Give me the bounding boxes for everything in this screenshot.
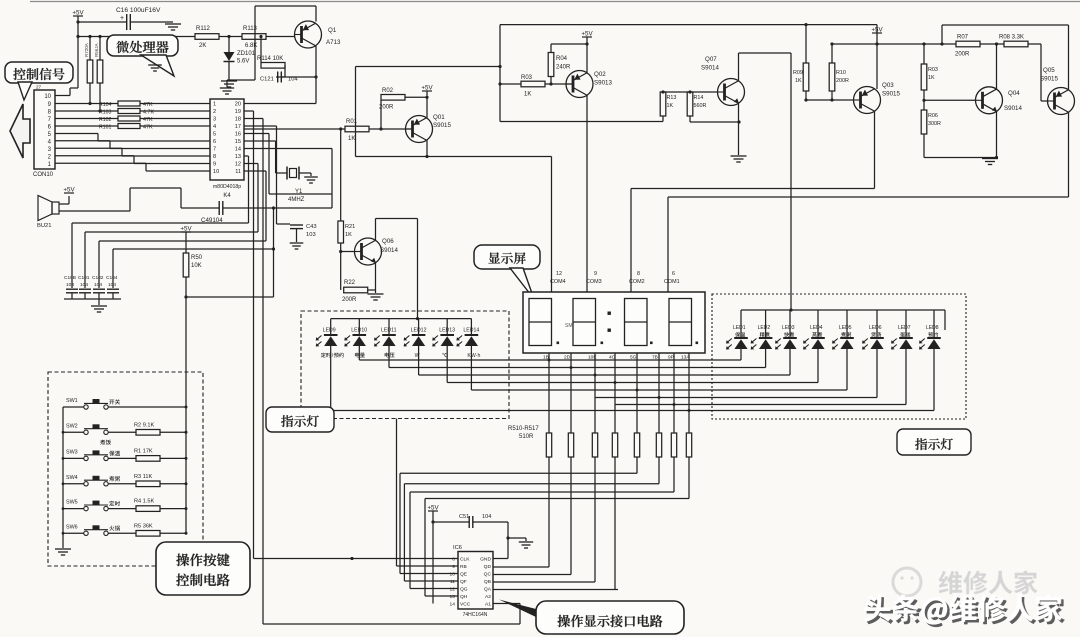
svg-text:240R: 240R — [556, 65, 571, 71]
wire R08 to Q05 base — [1041, 44, 1048, 101]
wire +5V vertical — [76, 16, 79, 88]
wire Q1 emitter to MCU pin20 — [244, 46, 316, 104]
svg-text:R03: R03 — [928, 67, 938, 73]
wire Q04 base rail — [924, 99, 976, 101]
wire Q04 emitter to ground rail — [924, 111, 998, 159]
wire MCU pin19 long vertical to IC6 CLK — [244, 111, 254, 559]
svg-text:SW2: SW2 — [66, 423, 78, 429]
svg-text:8: 8 — [637, 271, 640, 277]
svg-text:2K: 2K — [199, 43, 206, 49]
resistor R114 10K — [257, 35, 285, 68]
svg-text:16: 16 — [235, 132, 241, 138]
svg-text:104: 104 — [288, 77, 298, 83]
switch SW3 — [63, 448, 186, 461]
transistor Q06 S9014 — [355, 238, 399, 265]
wire segment line d — [447, 382, 818, 384]
svg-text:17: 17 — [235, 124, 241, 130]
ground for Q07 — [731, 156, 747, 162]
LED LED7 — [891, 310, 913, 405]
wire bus branch y121 — [500, 121, 663, 123]
resistor R03 1K — [498, 75, 573, 98]
wire left LED anode bus — [331, 317, 472, 320]
ground for C16 — [165, 22, 181, 30]
svg-text:510R: 510R — [519, 434, 534, 440]
power +5V for Q02 — [581, 31, 593, 74]
svg-text:4MHZ: 4MHZ — [288, 197, 305, 203]
LED LED11 — [374, 319, 397, 368]
svg-text:ZD101: ZD101 — [237, 51, 256, 57]
wire R07 rail — [877, 42, 956, 45]
indicator box left dashed — [301, 311, 509, 419]
wire Q07 emitter to ground — [738, 103, 740, 155]
LED LED12 — [404, 319, 427, 375]
svg-text:13: 13 — [235, 154, 241, 160]
wire QG bracket — [410, 457, 674, 589]
transistor Q1 A713 — [295, 21, 342, 48]
LED LED14 — [456, 319, 480, 390]
svg-text:QE: QE — [460, 572, 468, 578]
svg-text:200R: 200R — [379, 105, 394, 111]
svg-text:LED7: LED7 — [898, 325, 911, 331]
svg-text:1K: 1K — [928, 75, 935, 81]
svg-text:BU21: BU21 — [37, 223, 52, 229]
wire base rail y37 — [78, 35, 195, 38]
transistor Q03 S9015 — [854, 82, 901, 114]
svg-text:COM1: COM1 — [664, 279, 680, 285]
svg-text:SW6: SW6 — [66, 524, 78, 530]
svg-text:300R: 300R — [928, 121, 941, 127]
wire MCU pin12 wrap to cap bank — [85, 164, 258, 289]
svg-text:LED6: LED6 — [869, 325, 882, 331]
svg-text:12: 12 — [235, 162, 241, 168]
ground above MCU — [220, 80, 234, 94]
svg-text:R14: R14 — [694, 95, 704, 101]
svg-text:+: + — [120, 15, 124, 22]
svg-text:6: 6 — [672, 271, 675, 277]
ground at microprocessor callout tail — [148, 65, 162, 71]
wire Q1 collector to top rail — [227, 6, 316, 80]
capacitor C49104 — [181, 188, 332, 224]
LED LED2 — [751, 310, 773, 368]
svg-text:K4: K4 — [223, 193, 231, 199]
wire Q02 emitter to COM3 — [586, 95, 588, 292]
wire Q04 collector — [996, 44, 998, 90]
svg-text:QB: QB — [484, 579, 491, 585]
switch SW6 — [63, 523, 186, 536]
wire Q05 collector to top-right bus — [942, 25, 1069, 91]
svg-text:SW4: SW4 — [66, 475, 78, 481]
svg-text:1K: 1K — [667, 103, 674, 109]
svg-text:R06: R06 — [928, 113, 938, 119]
svg-text:Q07: Q07 — [705, 56, 717, 63]
switch SW1 — [63, 398, 186, 409]
LED LED5 — [832, 310, 854, 390]
indicator lamp label left — [266, 407, 334, 432]
wire CLK line from MCU — [254, 557, 459, 560]
wire CON10 pin10 to +5V — [55, 88, 78, 96]
wire segment line g — [615, 404, 906, 406]
svg-text:R07: R07 — [957, 35, 969, 41]
resistor R710B pullup — [97, 37, 103, 113]
svg-text:R08 3.3K: R08 3.3K — [999, 35, 1024, 41]
svg-text:14: 14 — [450, 602, 456, 608]
wire COM4 vertical — [551, 157, 553, 293]
svg-text:560R: 560R — [694, 103, 707, 109]
wire segment line dp — [331, 410, 934, 412]
svg-text:104: 104 — [80, 282, 88, 288]
wire MCU pin17 to C43 tap — [244, 126, 277, 224]
resistor R05 1K — [921, 42, 938, 110]
wire Q07 base rail — [661, 90, 717, 93]
svg-text:C10B: C10B — [64, 275, 76, 281]
svg-text:200R: 200R — [836, 78, 849, 84]
svg-text:S9015: S9015 — [433, 122, 451, 129]
wire segment line e — [471, 389, 847, 391]
watermark faint text — [939, 571, 1038, 595]
ground for Q06 — [368, 294, 384, 300]
svg-text:R114 10K: R114 10K — [257, 56, 283, 62]
wire CON10 pin4 to MCU — [55, 141, 210, 149]
ground for C43 — [290, 243, 304, 249]
svg-text:QD: QD — [484, 564, 492, 570]
svg-text:SM: SM — [565, 323, 573, 329]
svg-text:8: 8 — [452, 557, 455, 563]
svg-text:Y1: Y1 — [295, 189, 303, 195]
capacitor C43 103 — [277, 224, 317, 242]
switch SW2 — [63, 422, 186, 444]
svg-text:S9013: S9013 — [594, 80, 612, 87]
svg-text:12: 12 — [450, 587, 456, 593]
svg-text:R101: R101 — [99, 125, 112, 131]
svg-text:LED1: LED1 — [733, 325, 746, 331]
wire segment line a — [359, 359, 741, 361]
svg-text:Q04: Q04 — [1008, 90, 1020, 97]
svg-text:C43: C43 — [306, 224, 317, 230]
svg-text:103: 103 — [66, 282, 74, 288]
svg-text:13: 13 — [450, 594, 456, 600]
svg-text:R21: R21 — [345, 224, 355, 230]
svg-text:IC6: IC6 — [453, 545, 462, 551]
svg-text:10: 10 — [44, 94, 51, 100]
svg-text:R10: R10 — [836, 70, 846, 76]
wire CON10 pin3 to MCU — [55, 148, 210, 156]
svg-text:3: 3 — [213, 117, 216, 123]
capacitor C16 100uF16V — [78, 7, 168, 30]
svg-text:C101: C101 — [78, 275, 90, 281]
svg-text:14: 14 — [235, 147, 241, 153]
resistor R710A pullup — [84, 37, 93, 106]
svg-text:LED13: LED13 — [439, 328, 455, 334]
wire IC6 GND pin — [493, 538, 508, 559]
display segment pin labels — [543, 355, 690, 361]
LED LED6 — [862, 310, 884, 398]
buzzer BU21 — [37, 187, 181, 230]
ground for IC6 — [519, 538, 533, 548]
resistor network R104 47K — [55, 101, 210, 108]
wire top bus — [500, 23, 877, 26]
wire Q07 collector to LED bank feed — [739, 53, 792, 310]
svg-text:LED3: LED3 — [782, 325, 795, 331]
wire A1 return line — [263, 604, 520, 625]
svg-text:LED4: LED4 — [810, 325, 823, 331]
svg-text:R102: R102 — [99, 117, 112, 123]
svg-text:CLK: CLK — [460, 557, 470, 563]
svg-text:KW·h: KW·h — [467, 353, 480, 359]
LED LED3 — [775, 310, 797, 375]
svg-text:15: 15 — [235, 139, 241, 145]
svg-text:QA: QA — [484, 587, 492, 593]
wire QF bracket — [404, 457, 659, 581]
wire segment line b — [389, 367, 766, 369]
svg-text:LED14: LED14 — [463, 328, 479, 334]
wire cap to ground — [506, 522, 526, 540]
svg-text:R02: R02 — [382, 88, 394, 94]
wire Q03 emitter to COM2 — [631, 111, 875, 292]
transistor Q02 S9013 — [566, 71, 612, 98]
resistor R101 47K — [55, 124, 210, 131]
wire right LED anode bus — [741, 308, 945, 330]
wire segment line c — [419, 374, 790, 376]
LED LED9 — [316, 319, 344, 411]
resistor R13 1K — [660, 92, 676, 122]
svg-text:27: 27 — [36, 85, 42, 90]
svg-text:1K: 1K — [524, 92, 531, 98]
svg-text:10: 10 — [450, 572, 456, 578]
wire Q03 base rail — [806, 99, 854, 101]
resistor R14 560R — [687, 92, 740, 124]
svg-text:74HC164N: 74HC164N — [463, 612, 488, 618]
svg-text:LED2: LED2 — [758, 325, 771, 331]
svg-text:LED12: LED12 — [411, 328, 427, 334]
transistor Q01 S9015 — [406, 114, 452, 143]
svg-text:9: 9 — [594, 271, 597, 277]
svg-text:QC: QC — [484, 572, 492, 578]
wire switch left bus — [62, 407, 65, 548]
svg-text:GND: GND — [480, 557, 491, 563]
svg-text:9: 9 — [213, 162, 216, 168]
svg-text:R2 9.1K: R2 9.1K — [134, 422, 154, 428]
wire bracket to cap C104 — [113, 247, 275, 288]
wire MCU pin15 to crystal — [244, 141, 287, 173]
svg-text:SW5: SW5 — [66, 500, 78, 506]
callout bubble key control circuit — [156, 542, 250, 595]
svg-text:m80D4018p: m80D4018p — [213, 184, 241, 190]
svg-text:VCC: VCC — [460, 602, 471, 608]
svg-text:200R: 200R — [342, 297, 357, 303]
wire CON10 pin2 to MCU — [55, 156, 210, 164]
svg-text:19: 19 — [235, 109, 241, 115]
LED LED4 — [803, 310, 825, 383]
display COM pin labels — [550, 271, 680, 285]
svg-text:C16 100uF16V: C16 100uF16V — [116, 7, 161, 14]
svg-text:R1 17K: R1 17K — [134, 448, 153, 454]
svg-text:R22: R22 — [344, 280, 356, 286]
IC IC6 74HC164 — [450, 545, 493, 618]
svg-text:C104: C104 — [106, 275, 118, 281]
connector CON10 — [33, 85, 55, 179]
svg-text:W: W — [415, 353, 420, 359]
wire switch right bus junction dots — [185, 406, 188, 535]
crystal Y1 4MHZ — [287, 167, 311, 204]
power +5V for Q01 — [421, 85, 433, 119]
svg-text:7: 7 — [213, 147, 216, 153]
ground for crystal — [304, 173, 318, 183]
svg-text:LED5: LED5 — [839, 325, 852, 331]
callout bubble display label — [474, 245, 540, 299]
svg-text:R3 11K: R3 11K — [134, 474, 153, 480]
svg-text:Q06: Q06 — [382, 238, 394, 245]
transistor Q05 S9015 — [1040, 67, 1075, 115]
wire Q01 emitter to COM4 — [356, 140, 552, 158]
wire MCU to R01 — [244, 128, 345, 130]
svg-text:2: 2 — [213, 109, 216, 115]
svg-text:SW1: SW1 — [66, 398, 78, 404]
resistor R09 1K — [793, 25, 809, 102]
resistor R21 1K — [338, 129, 355, 290]
svg-text:R720A: R720A — [84, 43, 89, 57]
svg-text:R50: R50 — [191, 255, 203, 261]
capacitor C51 104 — [433, 514, 508, 528]
svg-text:R104: R104 — [99, 102, 112, 108]
svg-text:LED10: LED10 — [351, 328, 367, 334]
block arrow control signal — [10, 104, 30, 158]
resistor R08 3.3K — [999, 35, 1041, 47]
svg-text:4: 4 — [213, 124, 216, 130]
svg-text:6: 6 — [213, 139, 216, 145]
svg-text:11: 11 — [450, 579, 455, 585]
wire R10 to +5V branch — [832, 43, 877, 45]
wire Q06 collector loop — [376, 219, 418, 319]
resistor R22 200R — [342, 263, 376, 304]
svg-text:A713: A713 — [326, 39, 341, 46]
svg-text:SW3: SW3 — [66, 449, 78, 455]
LED LED1 — [726, 310, 748, 360]
svg-text:20: 20 — [235, 102, 241, 108]
watermark toutiao weixiurenjia — [864, 594, 1065, 626]
svg-text:R56JA: R56JA — [94, 43, 99, 57]
resistor R113 6.8K — [242, 26, 295, 49]
transistor Q04 S9014 — [976, 87, 1023, 114]
wire MCU pin14 to crystal loop — [244, 149, 332, 209]
watermark faint logo circle — [893, 568, 921, 596]
ground for cap bank — [91, 299, 107, 312]
svg-text:Q01: Q01 — [433, 114, 445, 121]
ground for ZD101 — [221, 81, 237, 87]
capacitor bank C10B C101 C102 C104 — [64, 275, 121, 299]
wire MCU pin11 wrap to cap bank — [99, 171, 266, 288]
wire QB to segment resistor — [493, 457, 595, 582]
svg-text:S9015: S9015 — [1040, 76, 1058, 83]
svg-text:8: 8 — [213, 154, 216, 160]
svg-text:COM3: COM3 — [586, 279, 602, 285]
IC MCU m80D4018p — [210, 99, 244, 199]
svg-text:S9014: S9014 — [1004, 105, 1022, 112]
key box dashed — [48, 372, 203, 566]
resistor R10 200R — [829, 42, 849, 101]
svg-text:R5 36K: R5 36K — [134, 523, 153, 529]
power +5V rail top-left — [72, 10, 84, 17]
wire QC to segment resistor — [493, 457, 571, 575]
svg-text:104: 104 — [108, 282, 116, 288]
svg-text:1K: 1K — [348, 136, 355, 142]
svg-text:10K: 10K — [191, 263, 202, 269]
resistor R06 300R — [921, 110, 941, 158]
wire MCU pin16 lower crystal loop — [244, 134, 332, 195]
wire segment line f — [595, 397, 877, 399]
resistor R50 10K with +5V — [180, 226, 202, 278]
resistor R01 1K — [339, 119, 412, 142]
svg-text:1: 1 — [213, 102, 216, 108]
LED LED13 — [432, 319, 455, 383]
callout bubble interface circuit label — [499, 600, 684, 635]
svg-text:R09: R09 — [793, 70, 803, 76]
svg-text:R13: R13 — [667, 95, 677, 101]
resistor R102 47K — [55, 116, 210, 123]
switch SW4 — [63, 474, 186, 487]
wire QA to segment resistor — [493, 457, 618, 590]
svg-text:C121: C121 — [260, 77, 274, 83]
svg-text:R4 1.5K: R4 1.5K — [134, 499, 154, 505]
svg-text:C102: C102 — [92, 275, 104, 281]
svg-text:Q1: Q1 — [328, 27, 337, 34]
power +5V for Q03 — [871, 25, 883, 89]
wire QH bracket — [425, 457, 689, 596]
resistor bank R510-R517 510R — [508, 426, 692, 457]
wire CON10 pin5 to MCU — [55, 134, 210, 142]
resistor R07 200R — [955, 35, 1004, 58]
LED LED8 — [919, 310, 941, 411]
resistor R112 2K — [195, 26, 242, 49]
svg-text:R510-R517: R510-R517 — [508, 426, 539, 432]
svg-text:1K: 1K — [795, 78, 802, 84]
svg-text:R03: R03 — [521, 75, 533, 81]
power +5V for IC6 — [427, 505, 439, 604]
svg-text:A1: A1 — [485, 602, 491, 608]
svg-text:R04: R04 — [556, 56, 568, 62]
7-segment display module — [523, 292, 705, 353]
svg-text:104: 104 — [94, 282, 102, 288]
svg-text:S9014: S9014 — [701, 65, 719, 72]
wire MCU pin13 wrap to cap bank — [72, 156, 249, 288]
svg-text:Q03: Q03 — [882, 82, 894, 89]
wire QE bracket — [400, 457, 637, 574]
svg-text:QF: QF — [460, 579, 467, 585]
svg-text:1K: 1K — [345, 232, 352, 238]
scan border top — [30, 1, 1080, 3]
svg-text:LED11: LED11 — [381, 328, 397, 334]
zener diode ZD101 5.6V — [224, 37, 256, 81]
ground for key circuit — [55, 549, 71, 555]
wire CON10 pin1 to MCU — [55, 163, 210, 171]
svg-text:5.6V: 5.6V — [237, 59, 249, 65]
svg-text:Q02: Q02 — [594, 71, 606, 78]
wire feedback loop top — [356, 25, 502, 157]
callout bubble control-signal label — [5, 62, 73, 100]
svg-text:103: 103 — [306, 232, 316, 238]
svg-text:CON10: CON10 — [33, 172, 54, 178]
svg-text:12: 12 — [556, 271, 562, 277]
LED LED10 — [344, 319, 367, 360]
svg-text:QG: QG — [460, 587, 468, 593]
svg-text:200R: 200R — [955, 52, 970, 58]
svg-text:RB: RB — [460, 564, 467, 570]
wire RB line — [397, 419, 459, 567]
svg-text:COM2: COM2 — [629, 279, 645, 285]
svg-text:S9014: S9014 — [380, 247, 398, 254]
svg-text:C51: C51 — [459, 514, 469, 520]
svg-text:10: 10 — [213, 169, 219, 175]
wire key return line — [186, 208, 274, 297]
